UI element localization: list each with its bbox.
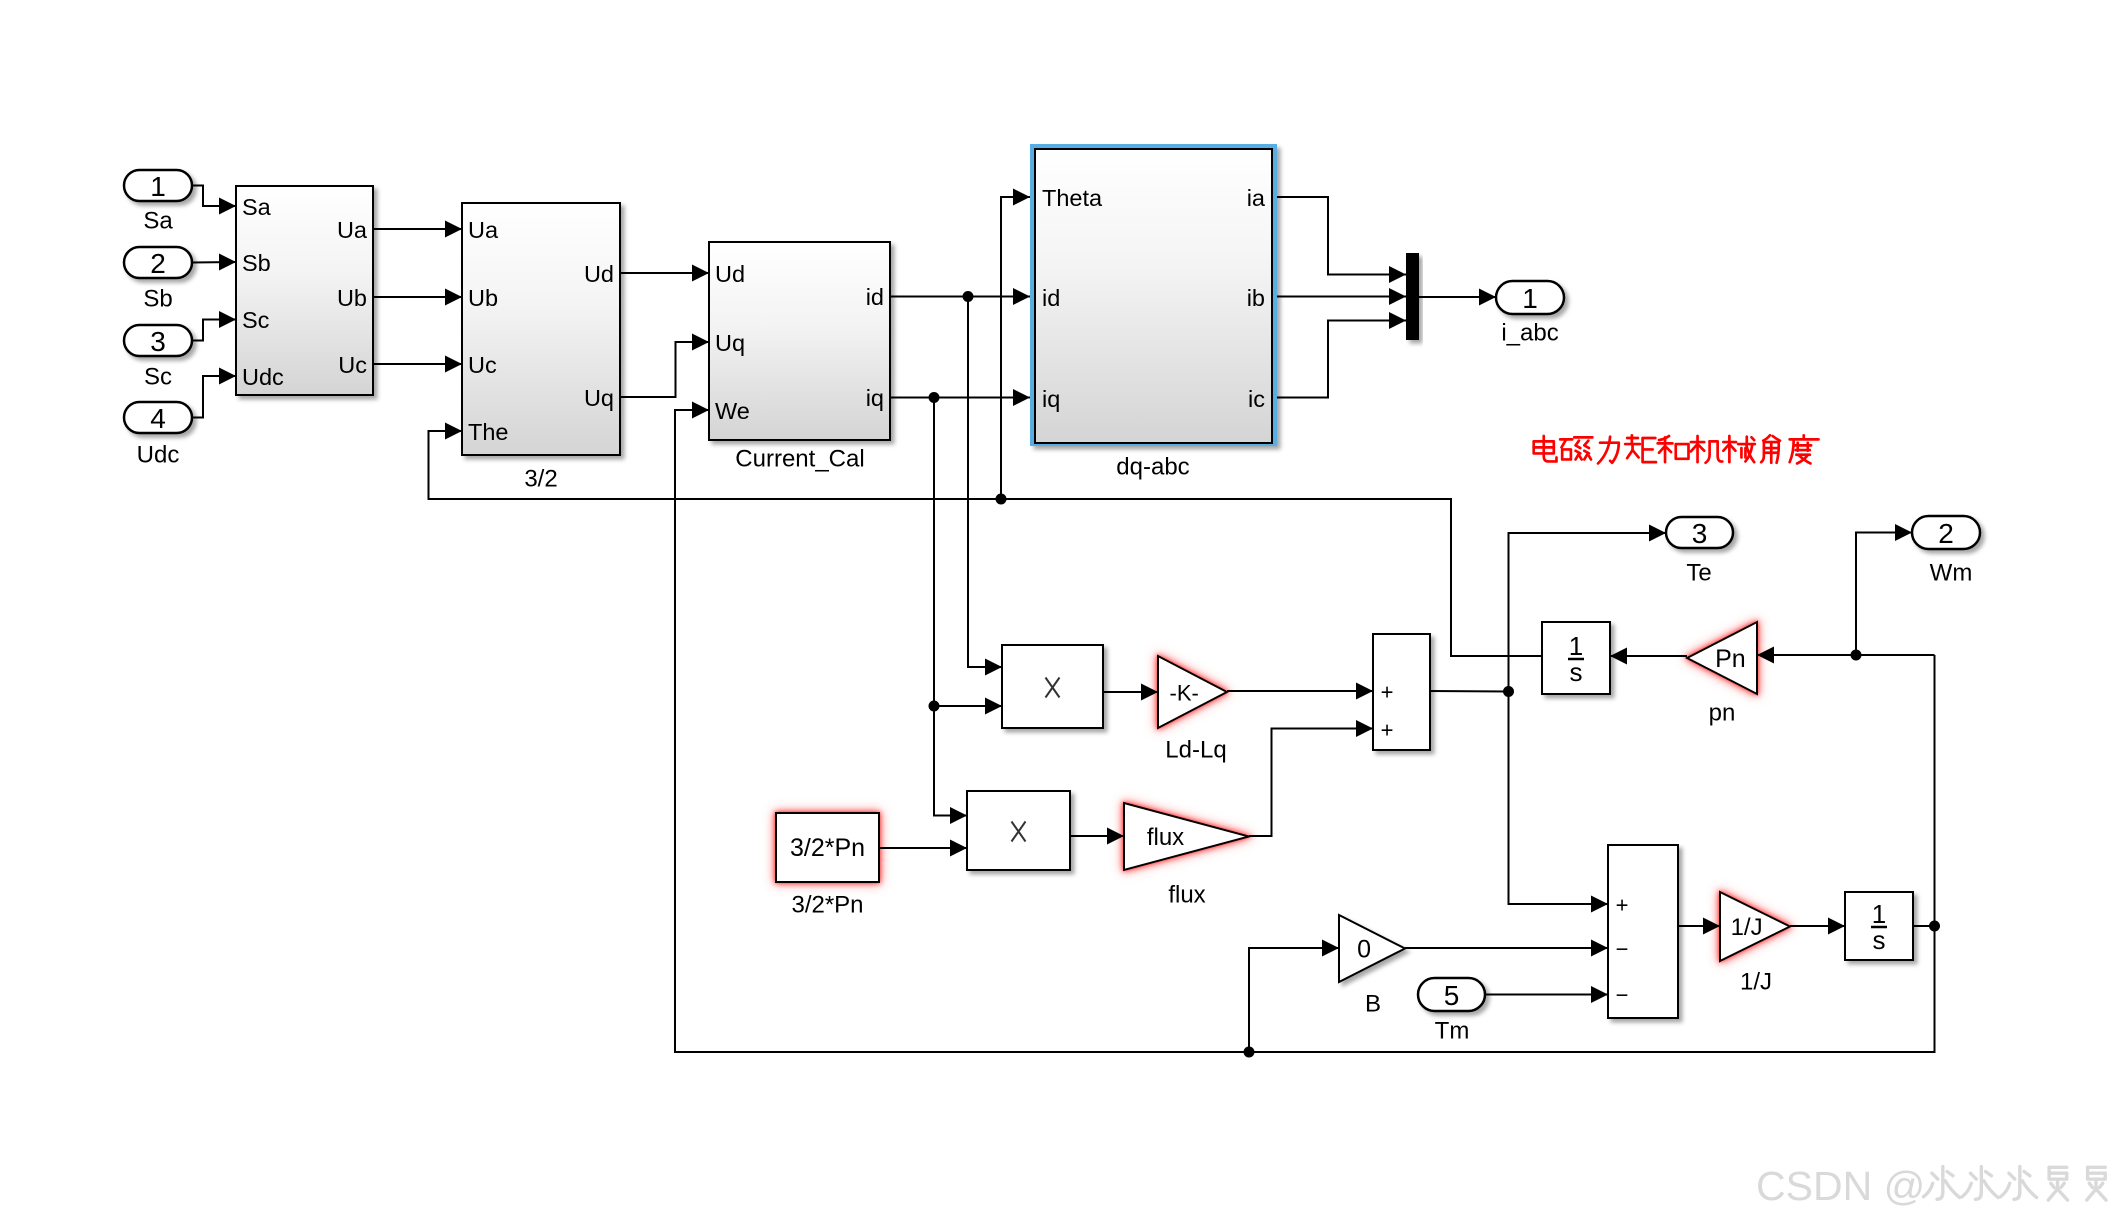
svg-text:CSDN @: CSDN @: [1756, 1163, 1925, 1209]
svg-text:1: 1: [1522, 283, 1538, 314]
wire Ud: [620, 265, 709, 282]
label flux: [1168, 882, 1205, 909]
svg-text:Ld-Lq: Ld-Lq: [1165, 737, 1226, 764]
svg-text:3: 3: [1692, 518, 1708, 549]
svg-text:Uq: Uq: [715, 330, 745, 356]
inport 2 Sb: [124, 247, 192, 313]
annotation 电磁力矩和机械角度 (red): [1534, 435, 1819, 463]
integrator 1/s (Wm): [1845, 892, 1913, 960]
label 3/2*Pn: [791, 892, 863, 919]
gain flux: [1124, 803, 1249, 870]
wire -K- to S1: [1227, 683, 1373, 700]
svg-text:The: The: [468, 419, 509, 445]
svg-text:4: 4: [150, 403, 166, 434]
svg-text:5: 5: [1444, 980, 1460, 1011]
junction Wm-branch: [1851, 650, 1862, 661]
wire const to P2: [879, 840, 967, 857]
svg-text:1/J: 1/J: [1740, 969, 1772, 996]
svg-text:3/2*Pn: 3/2*Pn: [790, 834, 865, 862]
wire Te down: [1509, 692, 1609, 913]
wire iq: [890, 389, 1030, 406]
sum S2 (+ - -): [1608, 845, 1678, 1018]
wire ia: [1277, 197, 1406, 283]
svg-text:ib: ib: [1247, 285, 1265, 311]
svg-text:B: B: [1365, 991, 1381, 1018]
subsystem Current_Cal: [709, 242, 890, 440]
wire iq down: [934, 398, 967, 825]
svg-text:1: 1: [150, 171, 166, 202]
wire Sa: [192, 186, 236, 215]
wire Wm out: [1913, 925, 1935, 927]
wire flux to S1: [1249, 720, 1373, 836]
junction Wm-out: [1929, 921, 1940, 932]
junction iq: [929, 392, 940, 403]
wire Sc: [192, 311, 236, 341]
svg-text:0: 0: [1357, 936, 1371, 964]
svg-text:iq: iq: [1042, 386, 1060, 412]
svg-text:1/J: 1/J: [1731, 914, 1763, 941]
svg-text:Ua: Ua: [468, 217, 499, 243]
svg-text:Wm: Wm: [1930, 560, 1973, 587]
svg-text:flux: flux: [1168, 882, 1205, 909]
wire Wm to Pn: [1757, 647, 1935, 664]
inport 1 Sa: [124, 170, 192, 235]
wire ic: [1277, 312, 1406, 398]
outport 2 Wm: [1912, 516, 1980, 587]
svg-text:id: id: [866, 284, 884, 310]
svg-text:Ud: Ud: [715, 261, 745, 287]
svg-text:id: id: [1042, 285, 1060, 311]
svg-text:+: +: [1616, 893, 1629, 918]
wire P2 to flux: [1070, 828, 1124, 845]
gain -K- Ld-Lq: [1158, 656, 1227, 728]
wire Te: [1509, 525, 1667, 692]
wire B to S2: [1405, 940, 1608, 957]
svg-text:s: s: [1570, 657, 1583, 687]
integrator 1/s (theta): [1542, 622, 1610, 694]
svg-text:iq: iq: [866, 385, 884, 411]
wire Ua: [373, 221, 462, 238]
svg-text:pn: pn: [1709, 700, 1736, 727]
svg-text:Sc: Sc: [144, 364, 172, 391]
label 1/J: [1740, 969, 1772, 996]
gain B (0): [1339, 915, 1405, 982]
wire Pn to 1/s: [1610, 648, 1687, 665]
wire id: [890, 288, 1030, 305]
product P2 (iq*flux): [967, 791, 1070, 870]
subsystem U1 inverter (Sa Sb Sc Udc -> Ua Ub Uc): [236, 186, 373, 395]
outport 3 Te: [1666, 517, 1733, 587]
svg-text:3/2: 3/2: [524, 466, 557, 493]
label pn: [1709, 700, 1736, 727]
svg-text:Sa: Sa: [242, 194, 272, 220]
inport 4 Udc: [124, 402, 192, 469]
label 3/2: [524, 466, 557, 493]
wire Theta feedback: [429, 423, 1543, 657]
wire Udc: [192, 368, 236, 418]
svg-text:Ub: Ub: [468, 285, 498, 311]
svg-text:We: We: [715, 398, 750, 424]
svg-text:ia: ia: [1247, 185, 1266, 211]
svg-text:Ua: Ua: [337, 217, 368, 243]
svg-text:Udc: Udc: [137, 442, 180, 469]
label B: [1365, 991, 1381, 1018]
svg-text:Tm: Tm: [1435, 1018, 1470, 1045]
label Ld-Lq: [1165, 737, 1226, 764]
junction Te: [1503, 686, 1514, 697]
svg-text:Udc: Udc: [242, 364, 284, 390]
wire Wm feedback bottom: [675, 402, 1935, 1053]
svg-text:3/2*Pn: 3/2*Pn: [791, 892, 863, 919]
svg-text:Ud: Ud: [584, 261, 614, 287]
svg-text:s: s: [1873, 925, 1886, 955]
svg-text:Current_Cal: Current_Cal: [735, 446, 864, 473]
svg-text:ic: ic: [1248, 386, 1265, 412]
label dq-abc: [1116, 454, 1189, 481]
junction B-branch: [1244, 1047, 1255, 1058]
wire Tm to S2: [1485, 986, 1608, 1003]
svg-text:2: 2: [150, 248, 166, 279]
wire Uc: [373, 356, 462, 373]
wire Wm: [1856, 524, 1912, 655]
watermark CSDN @水水水灵灵: [1756, 1163, 2106, 1209]
svg-text:Uc: Uc: [338, 352, 367, 378]
inport 3 Sc: [124, 325, 192, 391]
constant 3/2*Pn: [776, 813, 879, 882]
svg-text:Sa: Sa: [143, 208, 173, 235]
svg-text:Uq: Uq: [584, 385, 614, 411]
svg-text:Ub: Ub: [337, 285, 367, 311]
junction id: [963, 291, 974, 302]
subsystem dq-abc (selected, blue outline): [1030, 144, 1277, 446]
wire Wm up: [1934, 655, 1936, 926]
wire P1 to -K-: [1103, 684, 1158, 701]
svg-text:−: −: [1616, 937, 1629, 962]
wire S1 out (Te): [1430, 690, 1509, 693]
wire Uq: [620, 334, 709, 398]
product P1 (id*iq): [1002, 645, 1103, 728]
svg-text:+: +: [1381, 680, 1394, 705]
mux: [1406, 253, 1419, 340]
subsystem 3/2 transform block: [462, 203, 620, 455]
gain 1/J: [1720, 892, 1790, 961]
svg-text:3: 3: [150, 326, 166, 357]
svg-text:Pn: Pn: [1715, 645, 1746, 673]
wire ib: [1277, 288, 1406, 305]
svg-text:+: +: [1381, 718, 1394, 743]
wire to B: [1249, 940, 1339, 1053]
svg-text:Uc: Uc: [468, 352, 497, 378]
wire mux out: [1419, 289, 1496, 306]
wire iq to P1: [934, 698, 1002, 715]
svg-text:dq-abc: dq-abc: [1116, 454, 1189, 481]
svg-text:Te: Te: [1686, 560, 1711, 587]
inport 5 Tm: [1418, 978, 1485, 1045]
svg-text:Theta: Theta: [1042, 185, 1103, 211]
wire Theta up: [1001, 189, 1030, 500]
svg-text:i_abc: i_abc: [1501, 320, 1558, 347]
sum S1 (+ +): [1373, 634, 1430, 750]
wire 1/J to 1/s: [1790, 918, 1845, 935]
wire Sb: [192, 254, 236, 271]
svg-text:2: 2: [1938, 518, 1954, 549]
wire S2 to 1/J: [1678, 918, 1720, 935]
outport 1 i_abc: [1496, 281, 1564, 347]
svg-text:-K-: -K-: [1170, 681, 1199, 706]
wire Ub: [373, 289, 462, 306]
svg-text:Sc: Sc: [242, 307, 270, 333]
svg-text:−: −: [1616, 983, 1629, 1008]
svg-text:flux: flux: [1147, 824, 1184, 851]
junction iq-P1: [929, 701, 940, 712]
wire id down: [968, 297, 1002, 676]
svg-text:Sb: Sb: [143, 286, 172, 313]
label Current_Cal: [735, 446, 864, 473]
junction Theta: [996, 494, 1007, 505]
svg-text:Sb: Sb: [242, 250, 271, 276]
gain Pn (left): [1687, 622, 1757, 694]
